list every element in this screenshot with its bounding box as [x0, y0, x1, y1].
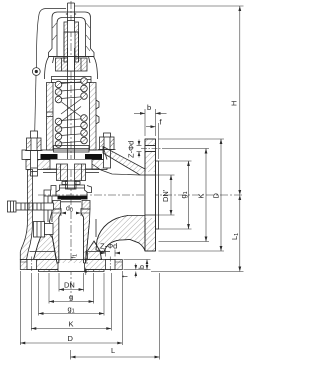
disc holder left arm	[44, 186, 56, 197]
Z-phi-d outlet dim	[137, 145, 142, 147]
dim g1 right	[188, 161, 190, 229]
svg-text:K: K	[69, 320, 74, 329]
bonnet wall left	[47, 83, 54, 151]
dim g	[49, 301, 94, 303]
svg-text:b: b	[139, 265, 146, 269]
dim DN'	[170, 175, 172, 215]
dim f	[158, 123, 160, 159]
ring set screw rod	[8, 201, 54, 212]
inlet flange plate	[20, 260, 122, 270]
svg-text:f: f	[123, 276, 130, 278]
stem washer	[62, 182, 80, 185]
svg-text:Z-Φd: Z-Φd	[100, 242, 117, 251]
svg-text:DN': DN'	[161, 189, 170, 202]
svg-text:b: b	[147, 103, 151, 112]
dimension lines	[20, 6, 243, 360]
body hub right outline	[94, 219, 102, 260]
seat seal band	[58, 196, 88, 199]
bonnet flange plate	[22, 150, 110, 160]
adjusting ring right	[82, 201, 90, 210]
right flange bolt	[98, 133, 116, 168]
disc holder	[56, 181, 87, 196]
dim D	[20, 342, 122, 344]
nozzle wall left	[50, 209, 62, 263]
cap inner wall	[57, 18, 86, 57]
dim L1	[239, 195, 241, 272]
outlet flange	[145, 139, 156, 251]
svg-text:g1: g1	[68, 305, 75, 315]
outlet raised face	[156, 161, 159, 229]
bonnet top boss	[45, 57, 98, 80]
spring coils right	[81, 78, 88, 144]
svg-text:D: D	[212, 193, 221, 199]
inlet raised face	[39, 270, 105, 272]
dim g1	[39, 313, 105, 315]
spring mid lines	[61, 99, 82, 122]
inlet flange b dim	[124, 259, 151, 261]
svg-text:DN: DN	[64, 281, 75, 290]
stem through spring	[68, 48, 75, 166]
body left wall	[20, 170, 32, 260]
outlet flange bolt hole	[141, 146, 162, 152]
svg-text:g1: g1	[179, 191, 189, 198]
disc holder right arm	[87, 186, 92, 193]
stem tip	[66, 3, 77, 22]
body cavity left line	[34, 196, 45, 260]
dim DN	[59, 289, 84, 291]
adjusting screw head	[64, 21, 79, 33]
hub step lines	[30, 251, 56, 253]
dim K right	[205, 149, 207, 242]
upper spring plate	[52, 77, 92, 83]
dim b	[144, 109, 146, 136]
cap outer	[49, 12, 95, 57]
outlet centerline	[38, 194, 244, 196]
bonnet wall lugs	[47, 100, 100, 124]
L1 bottom extension	[151, 271, 244, 273]
svg-text:D: D	[68, 334, 74, 343]
spring coils left	[55, 81, 62, 147]
svg-text:L: L	[111, 346, 115, 355]
dim D right	[220, 139, 222, 251]
inlet bore	[57, 263, 88, 272]
cap wall ticks	[53, 23, 91, 51]
right side extensions	[159, 138, 225, 140]
centerline vertical	[70, 1, 72, 299]
outlet under-bore wall	[96, 216, 145, 253]
svg-text:K: K	[197, 193, 206, 198]
lower spring plate	[54, 146, 90, 153]
drain plug	[34, 222, 54, 238]
outlet upper hub	[103, 147, 145, 176]
body hub left hatch	[34, 228, 57, 260]
spring coil shading	[57, 79, 87, 146]
lock nut	[56, 57, 88, 72]
lever fork link	[48, 196, 52, 222]
bottom extensions	[58, 273, 60, 292]
svg-text:L1: L1	[230, 233, 240, 240]
nozzle wall right	[81, 209, 90, 263]
svg-text:Z-Φd: Z-Φd	[127, 141, 136, 158]
dim K	[31, 328, 111, 330]
left flange bolt	[25, 131, 43, 176]
dim H	[239, 6, 241, 195]
svg-text:H: H	[230, 101, 239, 106]
svg-text:g: g	[69, 293, 73, 302]
bonnet wall right	[90, 83, 97, 151]
svg-text:f1: f1	[71, 254, 79, 259]
dim f1	[85, 251, 87, 263]
svg-text:f: f	[160, 118, 163, 127]
svg-text:d0: d0	[66, 206, 73, 214]
spring turn lines	[61, 82, 82, 143]
nozzle outline right	[81, 213, 90, 263]
seat lip	[61, 200, 81, 202]
adjusting ring left	[53, 201, 61, 210]
guide bushing	[43, 164, 99, 181]
adjusting screw shank	[64, 32, 79, 62]
inlet flange f dim	[135, 264, 137, 270]
seal wire	[36, 9, 66, 68]
dim L	[70, 350, 72, 360]
outlet bore top wall	[92, 164, 140, 175]
inlet flange bolt holes	[27, 257, 115, 272]
H top extension line	[75, 5, 244, 7]
dim d0	[60, 208, 62, 216]
nozzle outline left	[50, 213, 62, 263]
body top flange	[26, 160, 107, 170]
lead seal disc	[32, 68, 40, 76]
Z-phi-d bottom dim	[105, 250, 107, 257]
body hub right hatch	[88, 241, 102, 260]
